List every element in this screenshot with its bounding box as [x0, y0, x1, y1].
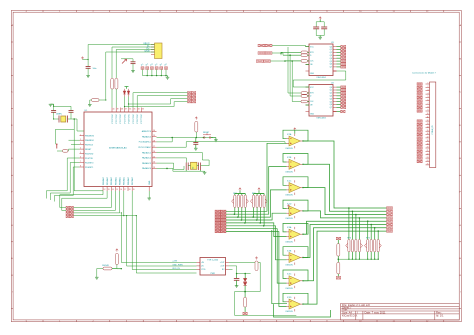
svg-text:-IN: -IN [201, 266, 204, 268]
wire U3 cascade to U4 [293, 71, 346, 87]
resistor R2 usb D+ [115, 79, 118, 90]
svg-text:PC7/TOSC: PC7/TOSC [141, 113, 143, 123]
svg-text:1: 1 [428, 83, 429, 85]
svg-text:KiCad E.D.A.: KiCad E.D.A. [342, 314, 358, 318]
svg-text:ATMEGA8535-AU: ATMEGA8535-AU [109, 147, 127, 150]
svg-text:1: 1 [59, 320, 61, 322]
mcu U1 pin names bottom [102, 176, 151, 185]
svg-text:11: 11 [427, 116, 429, 118]
svg-text:VCC: VCC [310, 46, 314, 48]
wire U4 top pin [306, 86, 310, 88]
svg-text:35: 35 [134, 109, 136, 111]
mcu U1 pin names left [85, 136, 94, 169]
svg-text:STR: STR [310, 52, 314, 54]
wire RP2 common bus [254, 193, 265, 195]
svg-text:12: 12 [426, 320, 429, 322]
svg-text:37: 37 [125, 109, 127, 111]
svg-text:30: 30 [153, 130, 155, 132]
crystal X2 [191, 162, 197, 169]
power +V above U3 [319, 20, 321, 22]
tall connector J7 body [430, 82, 436, 168]
wire J3 row1 [74, 191, 112, 208]
svg-text:LM324N: LM324N [286, 288, 294, 290]
svg-text:AREF/PC0: AREF/PC0 [142, 130, 151, 133]
svg-text:9: 9 [326, 320, 328, 322]
svg-text:6: 6 [428, 100, 429, 102]
svg-text:17: 17 [427, 137, 429, 139]
resistor R4 bottom-left [116, 249, 118, 252]
wire mcu bottom pin2 to J3 [62, 191, 107, 211]
title block [341, 303, 460, 320]
svg-text:JP4: JP4 [155, 63, 159, 66]
svg-text:23: 23 [427, 157, 429, 159]
svg-text:19: 19 [427, 143, 429, 145]
svg-text:PB7/ADC: PB7/ADC [131, 176, 134, 185]
U3 left pins [306, 47, 310, 71]
wire U4 pin OE [306, 104, 310, 106]
capacitor C6 xtal2 right [198, 163, 200, 171]
svg-text:-OUT: -OUT [220, 266, 225, 268]
svg-text:JP2: JP2 [145, 63, 149, 66]
wire crystal left rail down [73, 119, 75, 191]
resistor R3 pullup [195, 122, 198, 133]
svg-text:PD1/TXD: PD1/TXD [85, 158, 94, 160]
capacitor C3 vbus [86, 66, 91, 68]
svg-text:LM324N: LM324N [286, 241, 294, 243]
svg-text:24: 24 [427, 160, 429, 162]
svg-text:15: 15 [116, 189, 118, 191]
dcdc U6 left pins [197, 262, 201, 269]
svg-text:5: 5 [428, 96, 429, 98]
svg-text:7: 7 [80, 161, 81, 163]
svg-text:PA3/ADC3: PA3/ADC3 [142, 162, 151, 165]
svg-text:VCC: VCC [310, 87, 314, 89]
svg-text:JP5: JP5 [159, 63, 163, 66]
svg-text:18: 18 [427, 140, 429, 142]
capacitor C4 reset [195, 138, 197, 143]
svg-text:OE: OE [310, 64, 313, 66]
op-amp IC6 [289, 276, 301, 286]
jumper row labels [141, 63, 168, 66]
svg-text:Q2: Q2 [330, 93, 332, 95]
svg-text:RESET: RESET [85, 149, 92, 151]
tall connector J7 pins [426, 84, 430, 165]
svg-text:Q6: Q6 [330, 64, 332, 66]
wire left rail bottom to isp [74, 190, 103, 192]
svg-text:PC6/TOSC: PC6/TOSC [137, 113, 139, 123]
wire reset bus [157, 137, 214, 139]
svg-text:I: I [12, 291, 13, 293]
isp connector J3 pads [66, 206, 70, 208]
svg-text:36: 36 [129, 109, 131, 111]
mcu U1 pin names right [138, 130, 151, 170]
svg-text:26: 26 [153, 151, 155, 153]
svg-text:PA1/ADC1: PA1/ADC1 [142, 151, 151, 154]
svg-text:25: 25 [427, 164, 429, 166]
ground D6 [90, 100, 92, 105]
svg-text:12: 12 [104, 189, 106, 191]
svg-text:100n: 100n [93, 68, 97, 70]
svg-text:Q0: Q0 [330, 87, 332, 89]
op-amp IC0 [289, 136, 301, 146]
series resistor RA3 [301, 60, 308, 63]
svg-text:12: 12 [427, 120, 429, 122]
op-amp IC7 [289, 299, 301, 309]
svg-text:PD2/INT0: PD2/INT0 [85, 162, 93, 164]
net labels adc bus [172, 261, 183, 270]
svg-text:TSR 1-2450: TSR 1-2450 [207, 260, 219, 262]
svg-text:4: 4 [428, 93, 429, 95]
ground C3 [86, 75, 90, 77]
polyfuse F1 [122, 59, 127, 64]
svg-text:I: I [460, 291, 461, 293]
svg-text:IC3A: IC3A [287, 226, 292, 229]
svg-text:PWR: PWR [210, 273, 215, 275]
svg-text:16MHz: 16MHz [56, 114, 62, 116]
wire out bus [237, 273, 251, 275]
capacitor C1 [51, 110, 56, 112]
mcu U1 body [84, 112, 152, 187]
wire U6 pin3 [229, 269, 233, 271]
wire bottom rail to op8 [272, 230, 287, 304]
svg-text:Id: 1/1: Id: 1/1 [436, 314, 444, 318]
usb connector pins [151, 45, 155, 55]
op-amp IC1 [289, 159, 301, 169]
tall connector J7 pin numbers [427, 83, 429, 166]
ground crystal left [49, 103, 53, 105]
wire left loop [55, 130, 74, 145]
wire adc bus 3 [132, 191, 196, 270]
power +V op-amp chain top [294, 128, 296, 131]
wire pin5 left [57, 149, 80, 151]
svg-text:CLK: CLK [310, 61, 314, 63]
usb net labels [143, 43, 150, 53]
svg-text:8: 8 [80, 166, 81, 168]
wire usb D- [112, 47, 155, 78]
svg-text:D: D [310, 95, 312, 97]
svg-text:+24V: +24V [172, 261, 177, 263]
shift register U4 body [309, 85, 333, 117]
shift register U3 body [309, 44, 333, 76]
U3 right pins and pads [333, 47, 337, 67]
zener diode D2 [127, 89, 130, 97]
svg-text:39: 39 [117, 109, 119, 111]
wire isp2 [137, 96, 187, 108]
svg-text:JP6: JP6 [164, 63, 168, 66]
svg-text:PB4/ADC: PB4/ADC [119, 176, 122, 185]
wire caps to U3 vcc [319, 35, 321, 37]
svg-text:PB3/ADC: PB3/ADC [114, 176, 117, 185]
svg-text:CLK: CLK [310, 101, 314, 103]
svg-text:Q1: Q1 [330, 90, 332, 92]
svg-text:PC4/TOSC: PC4/TOSC [129, 113, 131, 123]
wire pin3 to reset bus [157, 138, 173, 142]
svg-text:5: 5 [193, 320, 195, 322]
svg-text:Q4: Q4 [330, 98, 332, 100]
svg-text:PC2/TOSC: PC2/TOSC [120, 113, 122, 123]
svg-text:G: G [459, 225, 461, 227]
mcu U1 bottom pins [103, 187, 149, 192]
svg-text:40: 40 [113, 109, 115, 111]
wire usb D+ [116, 50, 154, 79]
svg-text:13: 13 [108, 189, 110, 191]
ground D4 [95, 276, 99, 278]
mcu U1 left pins [80, 136, 85, 167]
svg-text:34: 34 [138, 109, 140, 111]
svg-text:4: 4 [159, 320, 161, 322]
ground C7 [235, 285, 239, 287]
svg-text:1N4148: 1N4148 [102, 265, 109, 267]
svg-text:27: 27 [153, 146, 155, 148]
ground below caps [319, 36, 321, 38]
wire pin7 down-left [50, 163, 79, 201]
pad R8 bottom [336, 277, 341, 280]
wire xtal2 interconnect [188, 165, 190, 167]
ground C4 [194, 147, 198, 149]
svg-text:3: 3 [80, 143, 81, 145]
wire U6 out right down [259, 262, 261, 291]
jumper row wires to bus [143, 69, 167, 75]
svg-text:PC1/TOSC: PC1/TOSC [116, 113, 118, 123]
svg-text:IC3B: IC3B [287, 250, 292, 252]
jumper row pads [141, 67, 144, 70]
svg-text:14: 14 [112, 189, 114, 191]
svg-text:Q7: Q7 [330, 67, 332, 69]
svg-text:28: 28 [153, 141, 155, 143]
svg-text:24: 24 [153, 162, 155, 164]
svg-text:PC0/TOSC: PC0/TOSC [112, 113, 114, 123]
wire xtal2 ground rail [157, 168, 205, 171]
svg-text:IC2B: IC2B [287, 157, 292, 159]
frame column numbers [26, 11, 429, 322]
svg-text:Q7: Q7 [330, 107, 332, 109]
mcu U1 pin names top [112, 113, 143, 123]
wire usb VBUS [88, 45, 154, 67]
op-amp feedback loops [283, 130, 308, 141]
svg-text:PC3/TOSC: PC3/TOSC [124, 113, 126, 123]
wire pin3 left stub [71, 144, 80, 146]
frame column ticks top/bottom [43, 10, 444, 321]
series resistor RA1 [301, 51, 308, 54]
mcu U1 right pins [152, 131, 157, 168]
wire RP1 common bus [235, 193, 246, 195]
svg-text:Q4: Q4 [330, 58, 332, 60]
svg-text:16: 16 [427, 133, 429, 135]
svg-text:20: 20 [427, 147, 429, 149]
pin flag left [56, 144, 58, 148]
op-amp IC5 [289, 253, 301, 263]
svg-text:LM324N: LM324N [286, 265, 294, 267]
svg-text:PC5/TOSC: PC5/TOSC [133, 113, 135, 123]
wire adc bus 2 [127, 216, 197, 266]
svg-text:38: 38 [121, 109, 123, 111]
resistor R8 [337, 262, 340, 274]
svg-text:PB0/ADC: PB0/ADC [102, 176, 105, 185]
capacitor C10 [131, 61, 136, 63]
wire crystal top rail [54, 105, 71, 107]
svg-text:74HC4094: 74HC4094 [316, 77, 326, 79]
wire usb GND [106, 52, 155, 100]
series resistor RA2 [301, 54, 308, 57]
resistor R7 chain top pad [336, 237, 341, 240]
svg-text:U4: U4 [331, 82, 334, 84]
crystal X1 [54, 118, 59, 120]
U4 pin names [330, 87, 332, 109]
wire xtal2 left bottom [157, 163, 185, 169]
capacitor C9 above U3 [323, 22, 325, 27]
op-amp IC3 [289, 206, 301, 216]
svg-text:PA2/ADC2: PA2/ADC2 [142, 157, 151, 160]
tall connector J7 pads [417, 83, 422, 86]
svg-text:16: 16 [120, 189, 122, 191]
power +V flag R3 [195, 117, 197, 120]
svg-text:U1: U1 [85, 110, 89, 112]
svg-text:11: 11 [393, 320, 396, 322]
pushbutton SW1 [203, 133, 211, 138]
wire J3 row2 [74, 191, 116, 210]
wire mcu to amp chain signal [157, 142, 290, 148]
resistor R5 u6 [255, 257, 257, 260]
wire bottom rail [235, 291, 261, 293]
frame row ticks left/right [11, 42, 461, 308]
svg-text:LM324N: LM324N [286, 311, 294, 313]
wire zeners to nets [124, 97, 126, 107]
power +5V flag [81, 57, 83, 60]
svg-text:Q6: Q6 [330, 104, 332, 106]
wire isp3 [129, 99, 188, 108]
svg-text:OE: OE [310, 105, 313, 107]
svg-text:PD0/RXD: PD0/RXD [85, 153, 94, 155]
svg-text:3: 3 [126, 320, 128, 322]
svg-text:IC3C: IC3C [287, 274, 292, 276]
U3 bottom-right pin [333, 70, 337, 72]
svg-text:18: 18 [129, 189, 131, 191]
wire adc bus 4 [136, 216, 196, 273]
wires network pair1 bottoms [234, 208, 236, 215]
capacitor C2 [69, 110, 74, 112]
svg-text:U3: U3 [331, 42, 334, 44]
mcu bottom pin8 ground [148, 191, 150, 198]
wire bus down to U4 c [292, 61, 301, 102]
svg-text:PD7/OC2/ADC: PD7/OC2/ADC [138, 146, 151, 149]
capacitor C8 above U3 [316, 21, 324, 23]
svg-text:IC2C: IC2C [287, 180, 292, 182]
svg-text:+IN: +IN [201, 262, 205, 264]
svg-text:JP3: JP3 [150, 63, 154, 66]
frame row letters [11, 24, 461, 293]
svg-text:PD3/INT1: PD3/INT1 [85, 167, 93, 169]
series resistor RB1 [301, 92, 308, 95]
capacitor C7 out [236, 274, 238, 279]
svg-text:19: 19 [133, 189, 135, 191]
svg-text:29: 29 [153, 135, 155, 137]
svg-text:PA0/ADC0: PA0/ADC0 [142, 135, 151, 138]
series resistor RB2 [301, 95, 308, 98]
wire bottom long rail [235, 292, 297, 316]
svg-text:21: 21 [427, 150, 429, 152]
svg-text:25: 25 [153, 157, 155, 159]
resistor R7 [337, 244, 340, 257]
svg-text:PB7/SCK: PB7/SCK [85, 144, 94, 146]
svg-text:4: 4 [80, 148, 81, 150]
wire pin2 left stub [69, 139, 80, 141]
op-amp IC2 [289, 183, 301, 193]
U4 left pins [306, 87, 310, 111]
wires network pair2 bottoms [348, 252, 350, 259]
svg-text:Q1: Q1 [330, 49, 332, 51]
svg-text:Date: 7 may 2011: Date: 7 may 2011 [365, 311, 387, 315]
svg-text:14: 14 [427, 127, 429, 129]
svg-text:Connections for Model 7: Connections for Model 7 [412, 72, 436, 75]
title block text [342, 303, 444, 318]
mcu U1 pin numbers [80, 109, 155, 192]
svg-text:6: 6 [80, 157, 81, 159]
svg-text:2: 2 [428, 86, 429, 88]
usb connector J1 body [155, 43, 163, 59]
U4 bottom-right pin [333, 111, 337, 113]
svg-text:LM324N: LM324N [286, 171, 294, 173]
svg-text:PB6/MISO: PB6/MISO [85, 140, 94, 142]
svg-text:8: 8 [428, 106, 429, 108]
wire J4 to U3 [272, 45, 306, 47]
svg-text:33: 33 [142, 109, 144, 111]
wire U6 out top [229, 261, 260, 263]
svg-text:VDD_IN: VDD_IN [172, 268, 180, 270]
U4 right pins and pads [333, 87, 337, 107]
pad R6 bottom [243, 312, 247, 315]
svg-text:Q3: Q3 [330, 96, 332, 98]
svg-text:GND: GND [149, 180, 151, 185]
svg-text:Q5: Q5 [330, 61, 332, 63]
svg-text:IC2A: IC2A [287, 133, 292, 136]
wire U6 out mid [229, 266, 237, 274]
wire bus down to U4 a [280, 53, 282, 55]
svg-text:PB5/ADC: PB5/ADC [123, 176, 126, 185]
dcdc U6 right pins [226, 262, 230, 269]
dcdc converter U6 body [200, 258, 226, 276]
mcu U1 top pins [112, 108, 141, 113]
svg-text:13: 13 [427, 123, 429, 125]
analog connector J9 pads [215, 210, 220, 212]
svg-text:22: 22 [427, 154, 429, 156]
ground SW1 [211, 137, 216, 139]
svg-text:PA4/ADC4: PA4/ADC4 [142, 167, 151, 170]
svg-text:10: 10 [427, 113, 429, 115]
wires network pair2 tops to outputs [348, 208, 350, 239]
svg-text:STR: STR [310, 93, 314, 95]
ground jumper bus [167, 76, 169, 78]
svg-text:5: 5 [80, 152, 81, 154]
svg-text:Q0: Q0 [330, 46, 332, 48]
diode D4 bottom-left [103, 267, 112, 270]
svg-text:CONN_25: CONN_25 [432, 125, 434, 135]
led D5 [243, 278, 246, 285]
input connector J6 [256, 60, 263, 63]
wire network pair2 bottom rail [338, 258, 377, 260]
svg-text:17: 17 [124, 189, 126, 191]
svg-text:2: 2 [92, 320, 94, 322]
svg-text:9: 9 [428, 110, 429, 112]
zener diode D1 [123, 89, 126, 97]
series resistor RB3 [301, 100, 308, 103]
svg-text:CTRL: CTRL [201, 269, 206, 271]
input connector J5 [258, 52, 265, 55]
wire mcu bottom pin1 to J3 [60, 191, 103, 208]
wire J6 to logic [270, 60, 285, 62]
svg-text:+OUT: +OUT [220, 262, 226, 264]
capacitor C5 xtal2 left [185, 163, 187, 171]
svg-text:LM324N: LM324N [286, 195, 294, 197]
